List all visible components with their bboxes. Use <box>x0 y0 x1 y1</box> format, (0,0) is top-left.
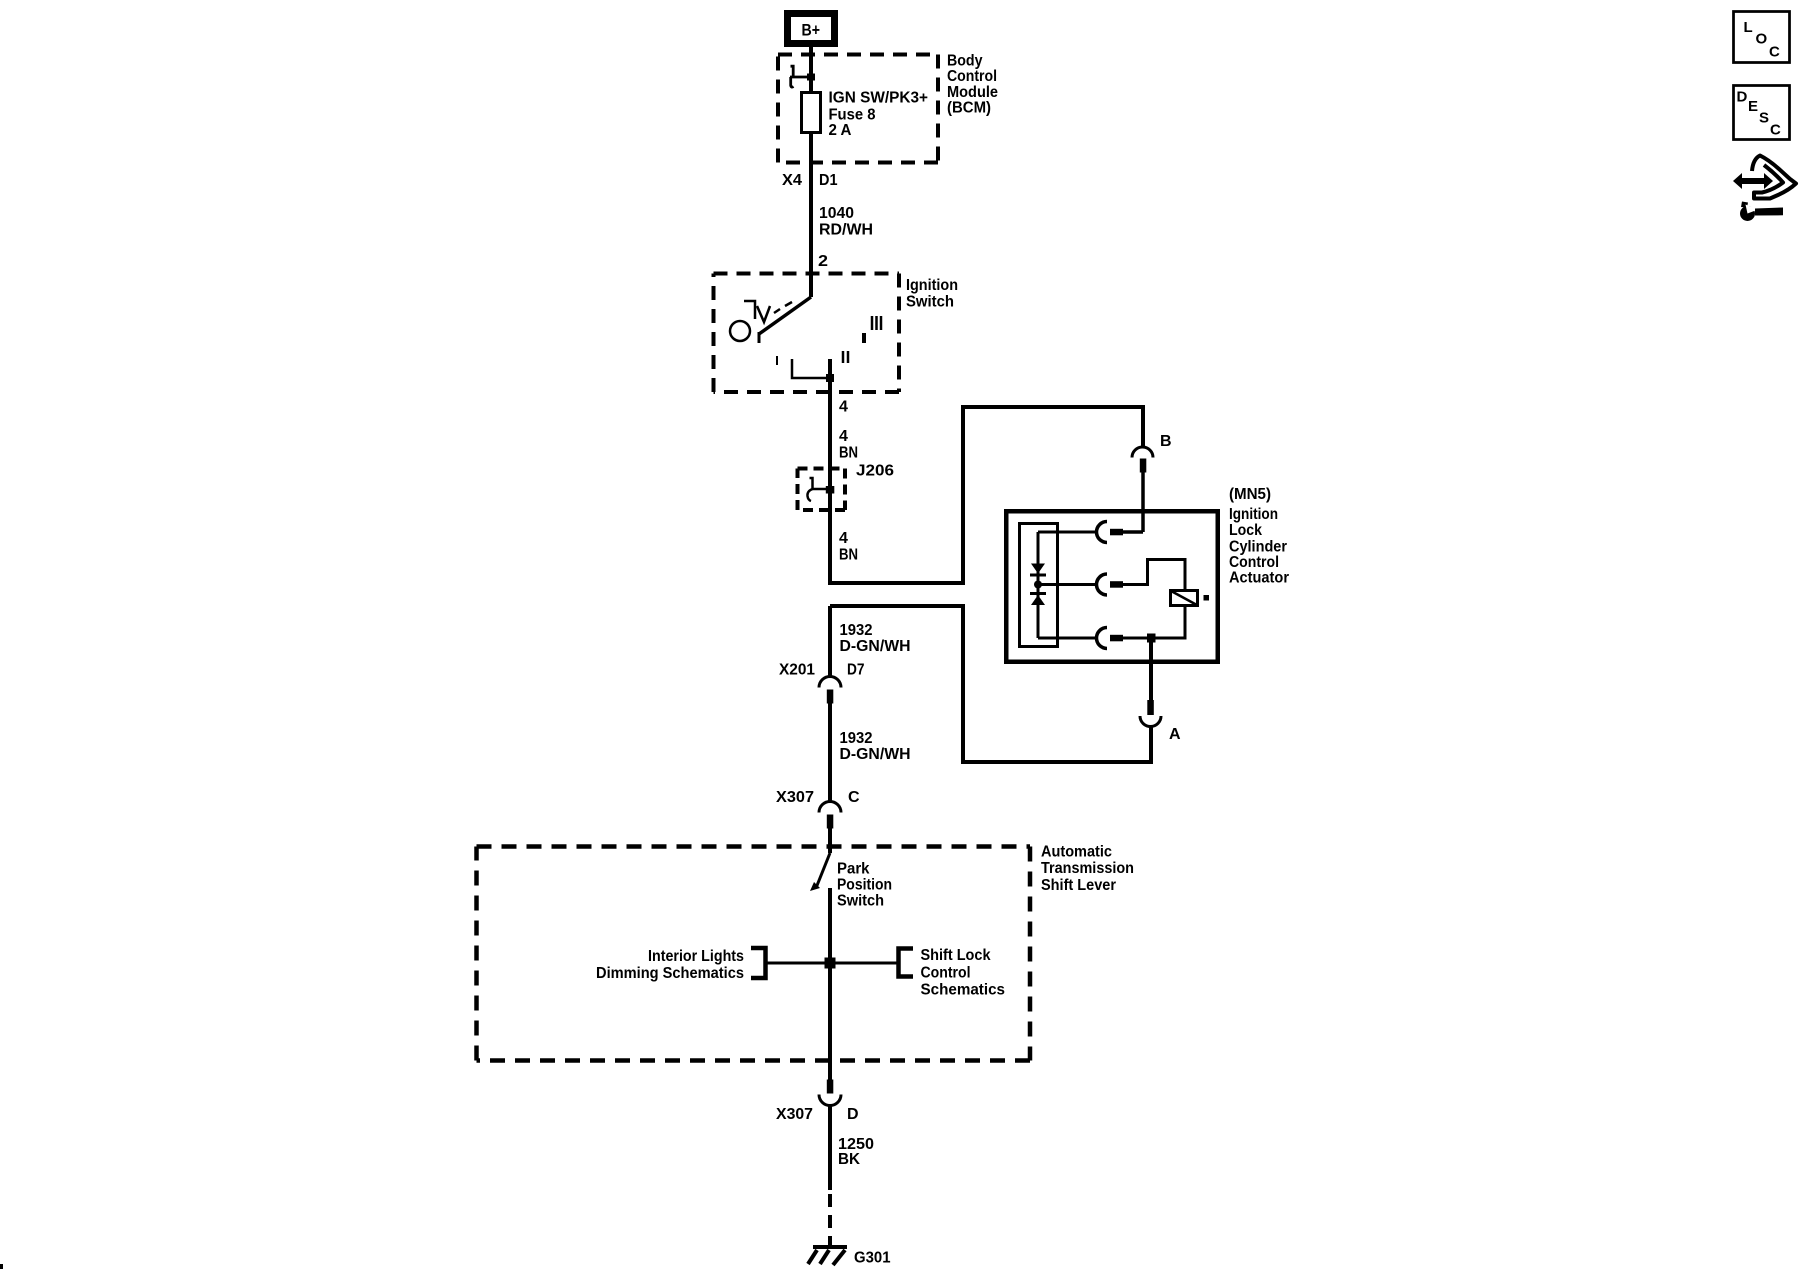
svg-text:A: A <box>1169 726 1181 743</box>
svg-text:1040: 1040 <box>819 205 854 222</box>
svg-text:C: C <box>848 789 860 806</box>
svg-text:Switch: Switch <box>837 893 884 910</box>
svg-text:Schematics: Schematics <box>921 982 1006 999</box>
svg-text:1932: 1932 <box>840 730 873 747</box>
svg-text:D: D <box>847 1106 859 1123</box>
svg-text:G301: G301 <box>854 1250 891 1267</box>
svg-text:S: S <box>1759 110 1769 127</box>
svg-text:X307: X307 <box>776 789 814 806</box>
svg-text:2: 2 <box>818 253 828 270</box>
svg-text:1932: 1932 <box>840 622 873 639</box>
svg-text:4: 4 <box>839 399 848 416</box>
svg-text:4: 4 <box>839 530 848 547</box>
svg-text:L: L <box>1744 19 1753 36</box>
svg-text:E: E <box>1748 98 1758 115</box>
svg-text:B+: B+ <box>802 21 821 40</box>
svg-text:Body: Body <box>947 53 983 70</box>
svg-text:Actuator: Actuator <box>1229 570 1289 587</box>
svg-text:B: B <box>1160 433 1172 450</box>
svg-text:X201: X201 <box>779 662 815 679</box>
svg-text:(MN5): (MN5) <box>1229 486 1271 503</box>
svg-text:Control: Control <box>1229 554 1279 571</box>
svg-text:D-GN/WH: D-GN/WH <box>840 638 911 655</box>
svg-text:2 A: 2 A <box>829 122 852 139</box>
svg-text:Interior Lights: Interior Lights <box>648 948 744 965</box>
svg-text:X4: X4 <box>782 172 802 189</box>
svg-text:C: C <box>1769 44 1780 61</box>
svg-text:4: 4 <box>839 428 848 445</box>
svg-text:Fuse 8: Fuse 8 <box>829 107 876 124</box>
svg-text:Module: Module <box>947 84 998 101</box>
svg-text:Ignition: Ignition <box>906 277 958 294</box>
svg-text:Shift Lock: Shift Lock <box>921 947 991 964</box>
svg-text:Automatic: Automatic <box>1041 844 1112 861</box>
svg-text:C: C <box>1770 122 1781 139</box>
svg-text:X307: X307 <box>776 1106 813 1123</box>
svg-text:Transmission: Transmission <box>1041 860 1134 877</box>
svg-text:Shift Lever: Shift Lever <box>1041 877 1116 894</box>
svg-text:Position: Position <box>837 877 892 894</box>
svg-text:Lock: Lock <box>1229 522 1262 539</box>
svg-text:BN: BN <box>839 445 858 462</box>
svg-text:Park: Park <box>837 861 870 878</box>
svg-text:D: D <box>1737 89 1748 106</box>
svg-text:RD/WH: RD/WH <box>819 222 873 239</box>
svg-text:BN: BN <box>839 547 858 564</box>
svg-text:Dimming Schematics: Dimming Schematics <box>596 965 744 982</box>
svg-text:Control: Control <box>921 965 971 982</box>
svg-text:IGN SW/PK3+: IGN SW/PK3+ <box>829 90 929 107</box>
svg-text:(BCM): (BCM) <box>947 100 991 117</box>
svg-text:Ignition: Ignition <box>1229 506 1278 523</box>
svg-text:D7: D7 <box>847 662 865 679</box>
svg-text:O: O <box>1756 31 1768 48</box>
svg-text:D-GN/WH: D-GN/WH <box>840 746 911 763</box>
svg-text:D1: D1 <box>819 172 838 189</box>
svg-text:Cylinder: Cylinder <box>1229 539 1287 556</box>
svg-text:J206: J206 <box>856 463 894 480</box>
svg-text:Control: Control <box>947 68 997 85</box>
svg-text:BK: BK <box>838 1151 860 1168</box>
svg-text:Switch: Switch <box>906 294 954 311</box>
